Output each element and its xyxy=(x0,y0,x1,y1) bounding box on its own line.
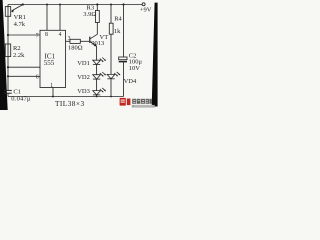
svg-text:3.9Ω: 3.9Ω xyxy=(83,11,96,18)
svg-text:VD2: VD2 xyxy=(77,74,90,81)
svg-text:4.7k: 4.7k xyxy=(14,21,26,28)
svg-text:+9V: +9V xyxy=(140,7,152,14)
svg-text:R4: R4 xyxy=(114,16,122,23)
svg-text:TIL38×3: TIL38×3 xyxy=(55,99,85,108)
svg-text:2.2k: 2.2k xyxy=(13,52,25,59)
svg-text:0.047μ: 0.047μ xyxy=(11,96,31,103)
svg-text:C1: C1 xyxy=(13,88,21,95)
svg-text:7: 7 xyxy=(36,33,39,39)
svg-text:1k: 1k xyxy=(114,28,121,35)
svg-text:4: 4 xyxy=(59,32,62,38)
svg-text:180Ω: 180Ω xyxy=(68,45,83,52)
svg-text:9013: 9013 xyxy=(91,40,104,47)
svg-text:1: 1 xyxy=(50,83,53,89)
svg-text:3: 3 xyxy=(68,36,71,42)
svg-text:555: 555 xyxy=(44,59,55,67)
svg-text:VD3: VD3 xyxy=(77,88,90,95)
svg-text:10V: 10V xyxy=(129,65,141,72)
svg-text:8: 8 xyxy=(45,32,48,38)
svg-text:VD4: VD4 xyxy=(124,78,137,85)
svg-text:VD1: VD1 xyxy=(77,60,90,67)
svg-text:6: 6 xyxy=(36,74,39,80)
